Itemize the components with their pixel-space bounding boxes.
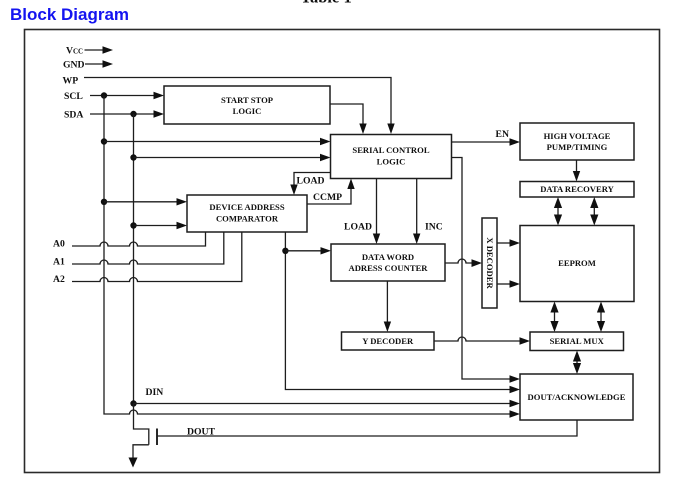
arrowhead into serial control (SDA) bbox=[320, 154, 331, 161]
svg-text:HIGH VOLTAGE: HIGH VOLTAGE bbox=[544, 131, 611, 141]
wire SDA tap into serial control bbox=[134, 157, 322, 159]
wire GND arrow bbox=[85, 63, 105, 65]
wire A2 with hops bbox=[72, 232, 242, 282]
wire start stop output to serial control bbox=[330, 104, 363, 126]
svg-text:LOAD: LOAD bbox=[344, 222, 372, 233]
svg-text:SERIAL MUX: SERIAL MUX bbox=[550, 336, 605, 346]
svg-text:INC: INC bbox=[425, 222, 443, 233]
wire bidir EEPROM / serial mux left bbox=[554, 306, 556, 327]
arrowhead into Y decoder bbox=[384, 322, 391, 333]
svg-text:A0: A0 bbox=[53, 239, 65, 250]
transistor Q1 drain lead bbox=[134, 404, 149, 445]
arrowhead into comparator (SCL) bbox=[177, 198, 188, 205]
block START STOP LOGIC bbox=[164, 86, 330, 124]
arrowhead into serial mux bbox=[520, 337, 531, 344]
wire comparator output down with node bbox=[285, 232, 510, 390]
svg-text:EEPROM: EEPROM bbox=[558, 258, 596, 268]
svg-text:Y DECODER: Y DECODER bbox=[362, 336, 414, 346]
ground arrow bbox=[129, 458, 138, 468]
wire DIN into DOUT/ACK bbox=[134, 403, 511, 405]
svg-text:GND: GND bbox=[63, 60, 85, 71]
block DATA WORD ADRESS COUNTER bbox=[331, 244, 445, 281]
arrowhead SCL bbox=[154, 92, 165, 99]
svg-text:SERIAL CONTROL: SERIAL CONTROL bbox=[352, 145, 429, 155]
wire Y decoder to serial mux with hop bbox=[434, 337, 521, 341]
svg-text:Table 1: Table 1 bbox=[301, 0, 352, 6]
arrowhead EN into pump bbox=[510, 138, 521, 145]
svg-text:PUMP/TIMING: PUMP/TIMING bbox=[547, 142, 608, 152]
block X DECODER bbox=[482, 218, 497, 308]
svg-text:DOUT/ACKNOWLEDGE: DOUT/ACKNOWLEDGE bbox=[528, 392, 626, 402]
arrowhead GND bbox=[103, 60, 114, 67]
arrowhead into serial control (SCL) bbox=[320, 138, 331, 145]
svg-text:LOGIC: LOGIC bbox=[377, 157, 406, 167]
svg-text:LOAD: LOAD bbox=[297, 176, 325, 187]
wire A0 with hops bbox=[72, 232, 206, 246]
block DOUT/ACKNOWLEDGE bbox=[520, 374, 633, 420]
node SDA tap to serial control bbox=[130, 154, 136, 160]
wire SDA tap into comparator bbox=[134, 225, 179, 227]
wire bidir serial mux / DOUT ack bbox=[576, 355, 578, 369]
wire SCL bus vertical to DOUT/ACK bbox=[104, 96, 511, 415]
arrowhead into data recovery bbox=[573, 171, 580, 182]
transistor Q1 gate bar bbox=[156, 429, 158, 446]
svg-text:ADRESS COUNTER: ADRESS COUNTER bbox=[348, 263, 428, 273]
arrowhead start stop output bbox=[359, 124, 366, 135]
arrowhead X decoder upper bbox=[510, 239, 521, 246]
svg-text:DEVICE ADDRESS: DEVICE ADDRESS bbox=[209, 202, 284, 212]
wire SDA into start stop logic bbox=[90, 113, 155, 115]
node SDA junction bbox=[130, 111, 136, 117]
wire CCMP from comparator to serial control bbox=[307, 187, 351, 204]
arrowhead WP into serial control bbox=[387, 124, 394, 135]
svg-text:COMPARATOR: COMPARATOR bbox=[216, 214, 279, 224]
wire bidir data recovery / EEPROM left bbox=[557, 202, 559, 220]
svg-text:DIN: DIN bbox=[146, 387, 164, 398]
block HIGH VOLTAGE PUMP/TIMING bbox=[520, 123, 634, 160]
wire X decoder to EEPROM lower bbox=[497, 283, 511, 285]
svg-text:DATA RECOVERY: DATA RECOVERY bbox=[540, 184, 614, 194]
wire DOUT gate line from DOUT/ACK bbox=[157, 420, 577, 436]
wire Vcc arrow bbox=[85, 49, 105, 51]
arrowhead into X decoder bbox=[472, 259, 483, 267]
wire bidir EEPROM / serial mux right bbox=[600, 306, 602, 327]
svg-text:Block Diagram: Block Diagram bbox=[10, 5, 129, 24]
svg-text:DATA WORD: DATA WORD bbox=[362, 252, 414, 262]
wire data word counter to X decoder with hop bbox=[445, 259, 473, 263]
arrowhead into data word counter bbox=[321, 247, 332, 254]
wire EN serial control to high voltage pump bbox=[452, 141, 512, 143]
arrowhead LOAD into counter bbox=[373, 234, 380, 245]
wire serial control to DOUT/ACK bbox=[452, 158, 511, 380]
wire pump to data recovery bbox=[576, 160, 578, 173]
wire X decoder to EEPROM upper bbox=[497, 242, 511, 244]
svg-text:WP: WP bbox=[63, 76, 79, 87]
transistor Q1 channel/source lead bbox=[133, 445, 149, 458]
wire SCL into start stop logic bbox=[90, 95, 155, 97]
wire SDA bus vertical bbox=[133, 114, 135, 404]
node SCL tap to serial control bbox=[101, 138, 107, 144]
wire LOAD from serial control to comparator bbox=[294, 173, 331, 187]
arrowhead comparator line into DOUT/ACK bbox=[510, 386, 521, 393]
wire SCL tap into comparator bbox=[104, 201, 178, 203]
block Y DECODER bbox=[342, 332, 435, 350]
svg-text:A1: A1 bbox=[53, 257, 65, 268]
wire node to data word counter bbox=[285, 250, 321, 252]
block DEVICE ADDRESS COMPARATOR bbox=[187, 195, 307, 232]
svg-text:START STOP: START STOP bbox=[221, 95, 273, 105]
svg-text:X DECODER: X DECODER bbox=[485, 237, 495, 289]
svg-text:CCMP: CCMP bbox=[313, 192, 342, 203]
svg-text:VCC: VCC bbox=[66, 46, 83, 57]
block SERIAL MUX bbox=[530, 332, 624, 351]
wire A1 with hops bbox=[72, 232, 224, 264]
node comparator output bbox=[282, 248, 288, 254]
arrowhead SCL bus into DOUT/ACK bbox=[510, 410, 521, 417]
arrowhead into comparator (SDA) bbox=[177, 222, 188, 229]
wire WP to serial control logic bbox=[84, 78, 391, 126]
node SDA tap to comparator bbox=[130, 222, 136, 228]
node SCL junction bbox=[101, 92, 107, 98]
arrowhead Vcc bbox=[103, 46, 114, 53]
wire SCL tap into serial control bbox=[104, 141, 321, 143]
wire INC into data word counter bbox=[416, 179, 418, 236]
node DIN junction bbox=[130, 400, 136, 406]
wire LOAD into data word counter bbox=[376, 179, 378, 236]
svg-text:EN: EN bbox=[496, 129, 509, 140]
block SERIAL CONTROL LOGIC bbox=[331, 135, 452, 179]
arrowhead serial control into DOUT/ACK bbox=[510, 375, 521, 382]
svg-text:SDA: SDA bbox=[64, 110, 83, 121]
arrowhead X decoder lower bbox=[510, 280, 521, 287]
svg-text:A2: A2 bbox=[53, 274, 65, 285]
arrowhead DIN into DOUT/ACK bbox=[510, 400, 521, 407]
node SCL tap to comparator bbox=[101, 199, 107, 205]
wire data word counter to Y decoder bbox=[386, 281, 388, 323]
arrowhead LOAD into comparator bbox=[290, 185, 297, 196]
svg-text:SCL: SCL bbox=[64, 91, 83, 102]
arrowhead SDA bbox=[154, 110, 165, 117]
wire bidir data recovery / EEPROM right bbox=[593, 202, 595, 220]
block EEPROM bbox=[520, 226, 634, 302]
svg-text:LOGIC: LOGIC bbox=[233, 106, 262, 116]
arrowhead CCMP into serial control bbox=[347, 179, 354, 190]
arrowhead INC into counter bbox=[413, 234, 420, 245]
block DATA RECOVERY bbox=[520, 182, 634, 198]
